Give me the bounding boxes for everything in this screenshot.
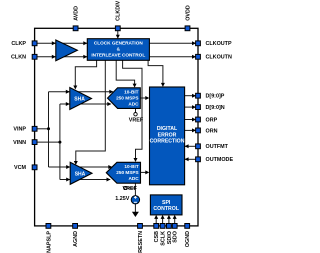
svg-text:RESETN: RESETN — [138, 231, 144, 253]
pin VINP — [32, 126, 37, 131]
svg-text:NAPSLP: NAPSLP — [46, 231, 52, 253]
svg-text:AVDD: AVDD — [74, 6, 80, 21]
svg-text:OUTMODE: OUTMODE — [206, 157, 234, 163]
wire ADC2 output to DEC — [141, 171, 147, 173]
wire VINP to node A — [35, 128, 49, 130]
SHA2 triangle — [70, 162, 92, 184]
svg-text:AGND: AGND — [73, 231, 79, 247]
wire SDIO into SPI — [168, 218, 170, 226]
arrowhead SDIO — [167, 215, 171, 219]
wire ADC1 output to DEC — [140, 97, 146, 99]
svg-text:VINP: VINP — [13, 127, 26, 133]
wire clock to SHA2 — [76, 60, 106, 161]
svg-text:250 MSPS: 250 MSPS — [116, 170, 138, 175]
arrowhead CLKOUTP — [192, 41, 196, 45]
arrowhead CLKDIV — [116, 35, 120, 39]
wire CLKP to clock buffer and clock gen — [35, 42, 88, 44]
ADC1 pentagon — [108, 88, 141, 109]
wire clock to ADC2 — [123, 60, 142, 158]
svg-text:CSB: CSB — [154, 231, 160, 242]
svg-text:SHA: SHA — [74, 97, 85, 103]
wire CLKN to clock buffer and clock gen — [35, 56, 88, 58]
arrowhead D[9:0]P — [192, 94, 196, 98]
SHA1 triangle — [70, 88, 92, 110]
wire OUTMODE to DEC — [185, 158, 198, 160]
arrowhead D[9:0]N — [192, 105, 196, 109]
pin CLKP — [32, 41, 37, 46]
svg-text:CONTROL: CONTROL — [153, 206, 179, 212]
node A junction dot — [47, 127, 50, 130]
svg-text:CLOCK GENERATION: CLOCK GENERATION — [94, 41, 143, 46]
wire VREF1 stub — [135, 108, 137, 112]
wire clock to DEC — [148, 60, 163, 83]
ADC2 pentagon — [106, 162, 140, 183]
svg-text:SDO: SDO — [173, 231, 179, 243]
arrowhead ORP — [192, 118, 196, 122]
pin SDIO — [167, 224, 172, 229]
arrowhead CLKP into buffer — [52, 41, 56, 45]
pin RESETN — [138, 224, 143, 229]
wire VINP branch to SHA2/ADC2 upper — [49, 166, 113, 168]
arrowhead OUTMODE into DEC — [185, 157, 189, 161]
arrowhead OUTFMT into DEC — [185, 144, 189, 148]
svg-text:SCLK: SCLK — [161, 231, 167, 246]
arrowhead ORN — [192, 128, 196, 132]
arrowhead SDO — [173, 215, 177, 219]
wire DEC to D[9:0]N — [185, 106, 198, 108]
arrowhead into ADC2 upper — [108, 165, 112, 169]
svg-text:CLKOUTP: CLKOUTP — [206, 41, 232, 47]
svg-text:CLKN: CLKN — [11, 55, 26, 61]
pin ORN — [196, 128, 201, 133]
arrowhead clock into ADC1 — [133, 84, 137, 88]
pin OVDD — [185, 26, 190, 31]
arrowhead CSB — [154, 215, 158, 219]
arrowhead into ADC2 lower — [107, 178, 111, 182]
wire SCLK into SPI — [162, 218, 164, 226]
wire node A vertical — [48, 92, 50, 167]
svg-text:VREF: VREF — [129, 118, 144, 124]
arrowhead CLKP into clock gen block — [83, 41, 87, 45]
svg-text:DIGITAL: DIGITAL — [157, 126, 178, 132]
pin CLKOUTP — [196, 41, 201, 46]
pin D[9:0]N — [196, 105, 201, 110]
arrowhead into ADC1 upper — [109, 90, 113, 94]
1.25V reference source circle — [131, 196, 139, 204]
arrowhead into SHA1 upper — [66, 90, 70, 94]
wire VINN branch to SHA2/ADC2 lower — [60, 179, 110, 181]
pin CLKDIV — [115, 26, 120, 31]
svg-text:ERROR: ERROR — [158, 132, 177, 138]
wire DEC to ORP — [185, 119, 198, 121]
pin AVDD — [73, 26, 78, 31]
arrowhead clock into SHA2 — [74, 161, 78, 165]
svg-text:ADC: ADC — [128, 102, 139, 107]
svg-text:CLKOUTN: CLKOUTN — [206, 55, 232, 61]
wire SDO into SPI — [174, 218, 176, 226]
pin AGND — [73, 224, 78, 229]
arrowhead into SHA2 lower — [66, 178, 70, 182]
chip outer border — [35, 28, 198, 226]
arrowhead ADC2 to DEC — [145, 170, 149, 174]
clock generation and interleave control block — [87, 39, 149, 61]
pin OGND — [185, 224, 190, 229]
arrowhead clock into SHA1 — [73, 86, 77, 90]
wire VINP branch to SHA1/ADC1 upper — [49, 91, 113, 93]
svg-text:OGND: OGND — [185, 231, 191, 247]
digital error correction block — [150, 87, 185, 185]
wire below 1.25V source — [134, 204, 136, 212]
pin SCLK — [160, 224, 165, 229]
svg-text:OVDD: OVDD — [185, 5, 191, 21]
svg-text:CLKDIV: CLKDIV — [116, 0, 122, 20]
pin CSB — [154, 224, 159, 229]
wire CLKOUTP — [149, 42, 198, 44]
arrowhead CLKOUTN — [192, 55, 196, 59]
svg-text:OUTFMT: OUTFMT — [206, 144, 229, 150]
svg-text:10-BIT: 10-BIT — [124, 89, 138, 94]
clock input buffer triangle — [56, 40, 78, 61]
pin VCM — [32, 165, 37, 170]
wire VREF2 stub to 1.25V source — [134, 183, 136, 195]
pin CLKN — [32, 54, 37, 59]
wire clock to ADC1 — [116, 60, 134, 84]
svg-text:ADC: ADC — [129, 176, 140, 181]
pin CLKOUTN — [196, 54, 201, 59]
arrowhead CLKN into clock gen block — [83, 55, 87, 59]
wire clock to SHA1 — [75, 60, 96, 86]
VREF1 terminal circle — [134, 113, 137, 116]
wire node B vertical — [59, 104, 61, 180]
svg-text:VREF: VREF — [123, 186, 138, 192]
wire DEC to ORN — [185, 129, 198, 131]
wire VINN to node B — [35, 141, 60, 143]
arrowhead into ADC1 lower — [107, 102, 111, 106]
arrowhead clock into ADC2 — [134, 158, 138, 162]
arrowhead down below 1.25V — [132, 212, 139, 217]
svg-text:INTERLEAVE CONTROL: INTERLEAVE CONTROL — [91, 53, 145, 58]
wire CSB into SPI — [155, 218, 157, 226]
node B junction dot — [58, 141, 61, 144]
svg-text:250 MSPS: 250 MSPS — [116, 96, 138, 101]
arrowhead into SHA2 upper — [66, 165, 70, 169]
wire CLKDIV drop into clock gen — [117, 28, 119, 35]
pin NAPSLP — [46, 224, 51, 229]
arrowhead ADC1 to DEC — [145, 96, 149, 100]
svg-text:VCM: VCM — [14, 165, 26, 171]
arrowhead clock into DEC — [161, 83, 165, 87]
svg-text:ORP: ORP — [206, 117, 218, 123]
svg-text:CORRECTION: CORRECTION — [150, 139, 185, 145]
pin OUTFMT — [196, 144, 201, 149]
wire VINN branch to SHA1/ADC1 lower — [60, 103, 111, 105]
wire OUTFMT to DEC — [185, 145, 198, 147]
pin OUTMODE — [196, 157, 201, 162]
wire DEC to D[9:0]P — [185, 95, 198, 97]
svg-text:10-BIT: 10-BIT — [124, 164, 138, 169]
svg-text:ORN: ORN — [206, 128, 218, 134]
VREF2 terminal circle — [124, 186, 127, 189]
arrowhead SCLK — [161, 215, 165, 219]
arrowhead into SHA1 lower — [66, 102, 70, 106]
wire VREF2 branch — [127, 187, 135, 189]
svg-text:D[9:0]N: D[9:0]N — [206, 105, 225, 111]
svg-text:SPI: SPI — [162, 200, 171, 206]
SPI control block — [150, 195, 182, 215]
svg-text:VINN: VINN — [13, 140, 26, 146]
pin VINN — [32, 140, 37, 145]
arrowhead CLKN into buffer — [52, 55, 56, 59]
pin SDO — [172, 224, 177, 229]
svg-text:1.25V: 1.25V — [115, 196, 129, 202]
pin D[9:0]P — [196, 93, 201, 98]
svg-text:SHA: SHA — [75, 171, 86, 177]
pin ORP — [196, 117, 201, 122]
wire CLKOUTN — [149, 56, 198, 58]
svg-text:CLKP: CLKP — [11, 41, 26, 47]
svg-text:D[9:0]P: D[9:0]P — [206, 94, 225, 100]
